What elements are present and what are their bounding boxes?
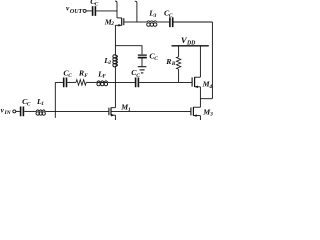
wire (M2 gate to node) [124,21,137,23]
svg-text:C: C [136,73,140,79]
svg-text:3: 3 [153,13,157,19]
inductor LF [97,81,108,86]
wire (VDD to M4 drain) [199,46,201,77]
wire [141,58,143,66]
wire (series cap to M4 gate) [139,81,192,83]
transistor M2 [117,17,122,19]
wire (feedback branch up) [54,82,56,117]
wire [67,81,76,83]
wire (node up, hook at top) [135,1,137,22]
wire (M2 source down to L2) [114,25,116,55]
svg-text:DD: DD [186,40,196,46]
wire (M1 channel through to M3 gate) [111,110,191,112]
svg-text:IN: IN [4,110,12,116]
wire (right rail down) [211,22,213,99]
wire (junction to shunt cap) [115,46,142,55]
wire (VDD to RB) [178,46,180,57]
transistor M3 [193,106,200,108]
resistor RB [176,57,180,70]
wire (RB to M4 gate line) [178,69,180,82]
wire [86,10,92,12]
wire [16,110,20,112]
svg-text:R: R [165,57,171,66]
capacitor CC (input coupling) [21,107,24,117]
wire [86,81,97,83]
svg-text:1: 1 [41,101,44,107]
svg-text:3: 3 [209,112,213,118]
svg-text:4: 4 [208,84,212,90]
wire (M1 drain up to L2) [114,67,116,108]
inductor L2 [113,55,118,67]
inductor L1 [36,110,45,115]
wire (M2 drain rail, hook at top) [115,1,117,18]
svg-text:F: F [84,73,88,79]
wire (right rail bottom to cascode node) [200,98,212,100]
node vIN terminal [13,110,16,113]
supply VDD bar [172,45,209,47]
resistor RF [76,80,86,86]
wire (M4 source down to cascode node and M3 drain) [199,87,201,107]
transistor M4 [195,76,201,78]
wire (LF through drain rail to series cap) [108,81,135,83]
capacitor CC (top right) [170,17,173,27]
svg-text:C: C [68,73,72,79]
svg-text:R: R [78,69,84,78]
svg-text:C: C [27,101,31,107]
wire [157,21,169,23]
svg-text:B: B [171,61,176,67]
svg-text:1: 1 [128,107,131,113]
wire [55,81,63,83]
svg-text:C: C [95,1,99,7]
node vOUT terminal [83,9,86,12]
capacitor CC (output coupling) [93,6,96,16]
wire (M3 source to bottom edge) [199,116,201,120]
capacitor CC (shunt to ground) [138,54,147,56]
inductor L3 [147,21,157,26]
wire [24,110,36,112]
wire (L1 to M1 gate, feedback tap) [45,110,109,112]
svg-text:C: C [169,13,173,19]
svg-text:OUT: OUT [70,9,83,15]
wire (node to L3) [137,21,147,23]
wire (to right rail) [174,21,213,23]
capacitor CC (feedback) [64,78,67,88]
ground [138,66,147,68]
svg-text:F: F [102,74,106,80]
wire [96,10,117,12]
capacitor CC (series, to M4 gate) [136,78,139,88]
svg-text:2: 2 [107,60,111,66]
transistor M1 [108,108,110,116]
svg-text:2: 2 [110,21,114,27]
svg-text:C: C [154,56,158,62]
